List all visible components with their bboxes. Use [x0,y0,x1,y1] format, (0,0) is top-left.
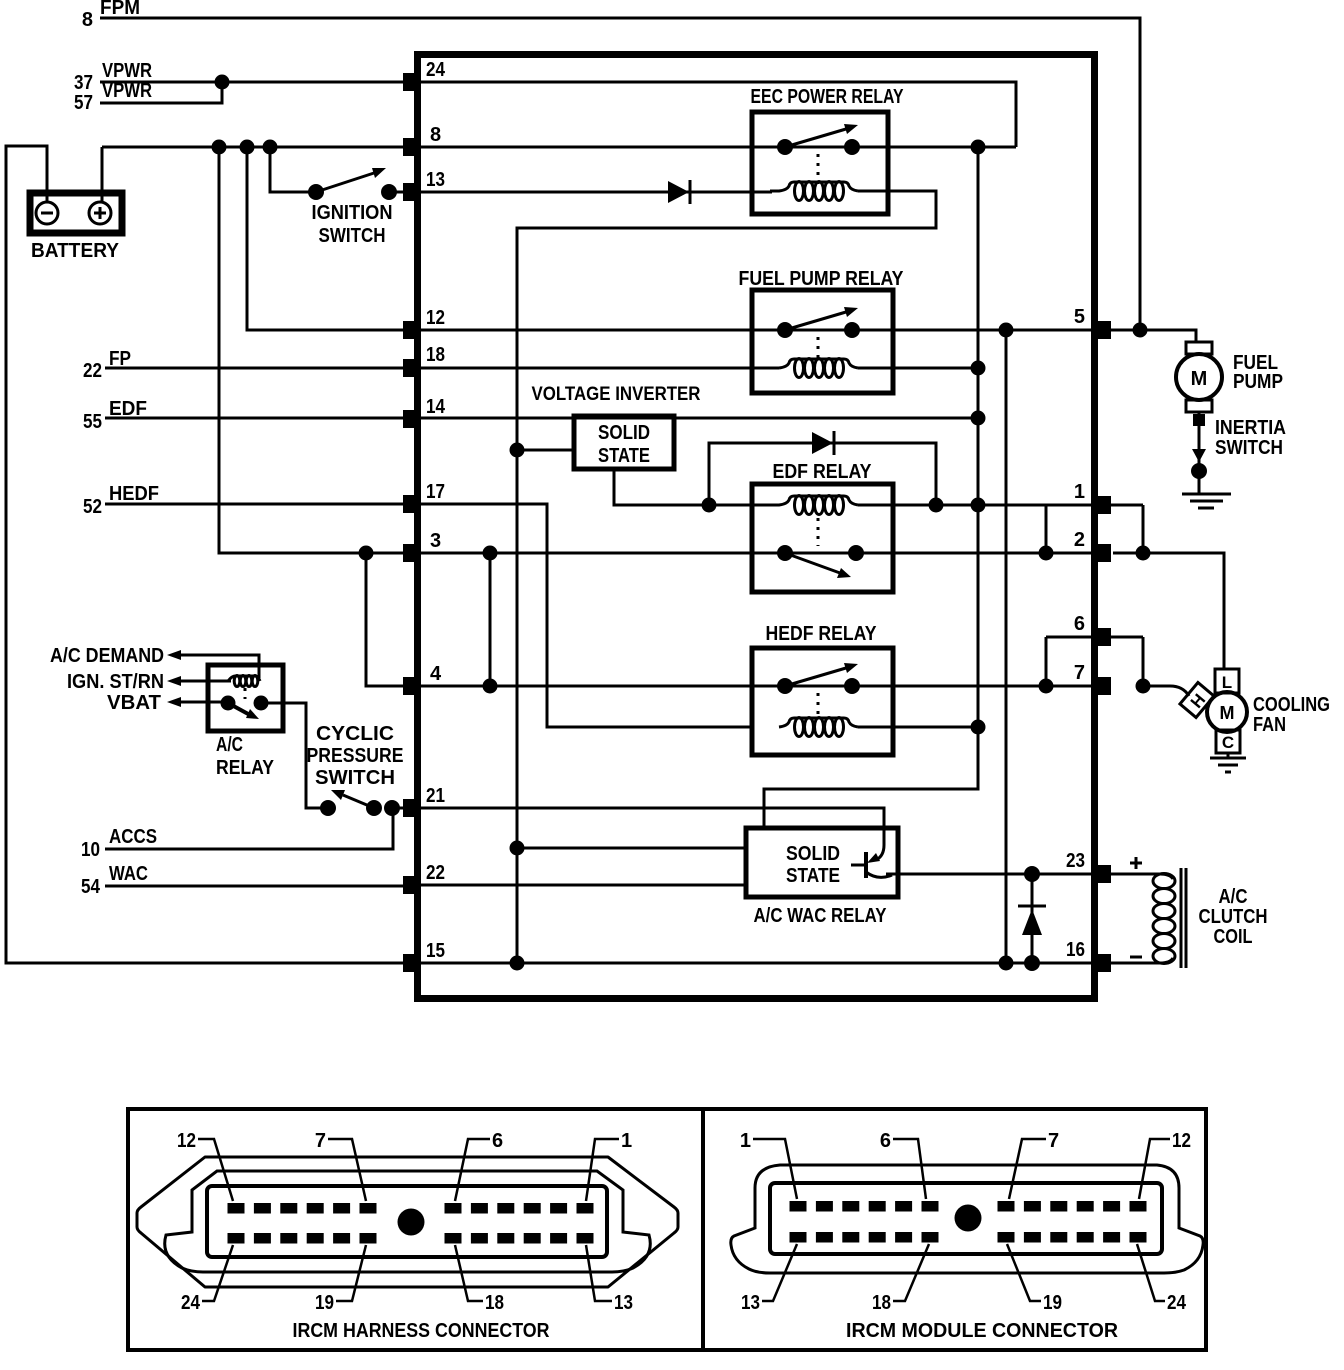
wire pin 17 line to HEDF relay coil [421,504,752,727]
wire pin 4 line to pin 7 through HEDF contacts [421,685,1094,688]
svg-text:13: 13 [614,1292,633,1314]
wire HEDF to pin 17 [105,503,403,506]
wire rail drop to pin 12 [247,147,410,330]
wire solid-state rail into voltage inverter [517,449,574,452]
svg-text:SOLID: SOLID [598,422,650,444]
svg-text:ACCS: ACCS [109,826,157,848]
connector J2 IRCM MODULE CONNECTOR shell [731,1165,1203,1273]
svg-text:1: 1 [621,1130,632,1152]
svg-text:55: 55 [83,411,102,433]
svg-text:C: C [1222,733,1234,752]
svg-text:COOLING: COOLING [1253,694,1330,716]
wire pin 15 to pin 16 line [421,962,1094,965]
node A/C DEMAND label with arrow [50,645,181,667]
connector J1 IRCM HARNESS CONNECTOR shell outer [137,1157,678,1287]
pin 15 [403,954,421,972]
svg-text:18: 18 [485,1292,504,1314]
wire HEDF coil return [858,726,978,729]
junction pin 2 line right leg [1136,546,1151,561]
relay K1 EEC POWER RELAY [751,86,905,214]
connector J2 pin field [770,1183,1162,1254]
wire pin 12 line to pin 5 through fuel pump relay contacts [421,329,1094,332]
svg-text:1: 1 [1074,481,1085,503]
svg-text:COIL: COIL [1214,926,1253,948]
connector J1 index circle [398,1209,425,1236]
wire pin 1 to pin 2 link left leg [1045,505,1048,553]
motor M1 FUEL PUMP [1176,342,1283,412]
svg-text:24: 24 [1167,1292,1187,1314]
wire WAC output to pin 23 [886,873,1094,876]
svg-text:VOLTAGE INVERTER: VOLTAGE INVERTER [532,384,701,405]
svg-text:A/C: A/C [1219,886,1248,908]
wire VPWR 37 to pin 24 [100,81,410,84]
transistor Q1 bar and emitter [851,852,892,878]
pin label 24 J1 [181,1245,233,1314]
svg-text:12: 12 [1172,1130,1191,1152]
svg-text:SWITCH: SWITCH [319,225,386,247]
svg-text:21: 21 [426,785,445,807]
wire pin 13 line to EEC relay coil circuit [421,191,772,194]
junction flyback diode bottom on pin 16 line [1024,955,1040,971]
pin 5 [1091,321,1111,339]
wire pin 3 to pin 4 inner strap [489,553,492,686]
pin 2 [1091,544,1111,562]
connector J1 pin field [207,1186,607,1257]
switch S2 INERTIA SWITCH [1191,414,1286,479]
svg-text:FUEL PUMP RELAY: FUEL PUMP RELAY [739,268,905,290]
junction pin 7 line left leg [1039,679,1054,694]
pin 24 [403,73,421,91]
svg-text:18: 18 [872,1292,891,1314]
wire EDF coil bypass diode branch [709,443,936,505]
wire pin 21 line into WAC transistor [421,808,884,860]
junction solid-state rail at pin 15 line [510,956,525,971]
ground inertia switch [1182,494,1231,508]
pin label 13 J2 [741,1244,797,1314]
wire voltage inverter output to EDF relay coil [614,469,753,505]
pin 12 [403,321,421,339]
svg-text:2: 2 [1074,529,1085,551]
pin 8 [403,138,421,156]
svg-text:22: 22 [426,862,445,884]
wire pin 1 to pin 2 link right leg [1142,505,1145,553]
pin label 18 J1 [455,1245,504,1314]
wire EEC coil return to solid-state rail [517,191,936,963]
svg-text:IGNITION: IGNITION [312,202,393,224]
svg-text:STATE: STATE [786,865,840,887]
diode CR2 on EDF branch [812,431,834,455]
svg-text:SOLID: SOLID [786,843,840,865]
wire A/C DEMAND to A/C relay coil [179,655,259,678]
svg-text:CLUTCH: CLUTCH [1199,906,1268,928]
wire pin 18 line to fuel pump relay coil [421,367,779,370]
wire pin 2 to cooling fan low terminal [1113,553,1224,670]
svg-text:M: M [1220,703,1235,723]
node IGN. ST/RN label with arrow [67,671,181,693]
svg-text:7: 7 [1048,1130,1059,1152]
connector J2 pins top row [790,1201,1147,1212]
svg-text:52: 52 [83,496,102,518]
wire EDF coil to pin 1 [858,504,1143,507]
svg-text:3: 3 [430,530,441,552]
pin label 12 J2 [1139,1130,1191,1199]
wire A/C relay to cyclic pressure switch [261,703,330,808]
svg-text:19: 19 [1043,1292,1062,1314]
svg-text:15: 15 [426,940,445,962]
junction coil rail at EDF coil [971,498,986,513]
relay K6 A/C RELAY [208,665,283,779]
wire VBAT to A/C relay contact [179,701,222,704]
wire ACCS to cyclic switch node [105,808,393,849]
svg-text:SWITCH: SWITCH [1215,437,1283,459]
node EDF pin 55 label [83,398,147,433]
svg-text:PRESSURE: PRESSURE [307,745,404,767]
connector J1 pins top row [228,1203,594,1214]
svg-text:CYCLIC: CYCLIC [316,723,394,745]
junction FPM drop on pin 5 wire [1133,323,1148,338]
svg-text:1: 1 [740,1130,751,1152]
wire coil rail into A/C WAC solid state [764,147,978,828]
svg-text:IRCM HARNESS CONNECTOR: IRCM HARNESS CONNECTOR [293,1320,550,1342]
node ACCS pin 10 label [81,826,157,861]
wire pin 6 to pin 7 link [1046,637,1143,686]
svg-text:10: 10 [81,839,100,861]
wire pin 3 line to pin 2 through EDF contacts [421,552,1094,555]
svg-text:IGN. ST/RN: IGN. ST/RN [67,671,164,693]
svg-text:M: M [1191,368,1208,390]
svg-text:17: 17 [426,481,445,503]
svg-text:RELAY: RELAY [216,757,275,779]
connector J1 pins bottom row [228,1233,594,1244]
node + terminal label [1130,857,1142,869]
pin 22 [403,876,421,894]
svg-text:6: 6 [1074,613,1085,635]
junction pin 7 line right leg [1136,679,1151,694]
svg-text:EEC POWER RELAY: EEC POWER RELAY [751,86,905,108]
svg-text:12: 12 [426,307,445,329]
svg-text:WAC: WAC [109,863,148,885]
junction coil rail at HEDF coil [971,720,986,735]
wire right-side drop pin 5 to pin 16 line [1005,330,1008,963]
wire pin 8 line through EEC relay contacts [421,146,1016,149]
battery BAT1 [30,193,122,262]
pin label 19 J2 [1007,1244,1062,1314]
node VBAT label with arrow [107,692,181,714]
junction right-side drop at pin 16 line [999,956,1014,971]
pin label 6 J1 [455,1130,503,1201]
node WAC pin 54 label [81,863,148,898]
node FP pin 22 label [83,348,131,382]
wire rail drop to ignition switch [270,147,316,192]
pin label 7 J2 [1009,1130,1059,1199]
svg-text:24: 24 [426,59,446,81]
svg-text:A/C WAC RELAY: A/C WAC RELAY [754,905,888,927]
junction coil rail at pin 14 [971,411,986,426]
svg-text:12: 12 [177,1130,196,1152]
svg-text:7: 7 [1074,662,1085,684]
junction coil-return rail on pin 8 line [971,140,986,155]
junction pin 4 inner strap [483,679,498,694]
pin label 1 J2 [740,1130,797,1199]
junction pin 3 line outer [359,546,374,561]
junction EDF diode return [929,498,944,513]
pin label 7 J1 [315,1130,366,1201]
switch S3 CYCLIC PRESSURE SWITCH [307,723,404,816]
pin label 1 J1 [586,1130,632,1201]
connector section divider [701,1109,705,1350]
svg-text:VBAT: VBAT [107,692,161,714]
pin 18 [403,359,421,377]
relay K5 A/C WAC RELAY solid state block [746,828,898,927]
svg-text:INERTIA: INERTIA [1215,417,1286,439]
svg-text:22: 22 [83,360,102,382]
junction coil rail at fuel pump relay [971,361,986,376]
svg-text:19: 19 [315,1292,334,1314]
diode CR1 on pin 13 line [668,180,690,204]
junction VPWR [215,75,230,90]
svg-text:4: 4 [430,663,442,685]
node FPM (pin 8 of EEC) label [82,0,140,31]
wire WAC to pin 22 [105,885,403,888]
diode CR3 A/C clutch flyback [1018,874,1046,963]
pin 3 [403,544,421,562]
svg-text:8: 8 [430,124,441,146]
svg-text:13: 13 [741,1292,760,1314]
node VPWR pin 37 label [74,60,152,94]
wire FPM net: from label right, down right side to pin 5 line [100,18,1140,330]
pin label 19 J1 [315,1245,366,1314]
pin label 12 J1 [177,1130,233,1201]
svg-text:14: 14 [426,396,446,418]
node HEDF pin 52 label [83,483,159,518]
svg-text:IRCM MODULE CONNECTOR: IRCM MODULE CONNECTOR [846,1320,1119,1342]
pin 14 [403,410,421,428]
junction inverter output node [702,498,717,513]
pin 6 [1091,628,1111,646]
svg-text:23: 23 [1066,850,1085,872]
connector J2 index circle [955,1205,982,1232]
svg-text:VPWR: VPWR [102,60,152,82]
svg-text:57: 57 [74,92,93,114]
svg-text:A/C DEMAND: A/C DEMAND [50,645,164,667]
node - terminal label [1130,956,1142,959]
relay K2 FUEL PUMP RELAY [739,268,905,393]
wire pin 14 line [421,417,978,420]
svg-text:PUMP: PUMP [1233,371,1283,393]
pin 21 [403,799,421,817]
pin 13 [403,183,421,201]
svg-text:STATE: STATE [598,445,650,467]
connector J2 pins bottom row [790,1232,1147,1243]
pin 17 [403,495,421,513]
junction pin 5 line [999,323,1014,338]
svg-text:13: 13 [426,169,445,191]
junction solid-state rail at WAC [510,841,525,856]
node VPWR pin 57 label [74,80,152,114]
svg-text:6: 6 [880,1130,891,1152]
junction solid-state rail at inverter [510,443,525,458]
pin 7 [1091,677,1111,695]
junction flyback diode top on pin 23 wire [1024,866,1040,882]
connector J1 shell inner [165,1171,651,1272]
svg-text:A/C: A/C [216,734,243,756]
motor M2 COOLING FAN [1180,669,1330,753]
svg-text:37: 37 [74,72,93,94]
junction pin 2 line left leg [1039,546,1054,561]
wire pin 24 internal feed joining pin 8 line [421,82,1016,147]
wire solid-state rail into WAC block [517,847,746,850]
wire cyclic pressure switch to pin 21 [392,807,403,810]
svg-text:HEDF: HEDF [109,483,159,505]
pin label 24 J2 [1137,1244,1187,1314]
wire battery positive rail to pin 8 [102,147,410,201]
svg-text:FPM: FPM [100,0,140,19]
svg-text:54: 54 [81,876,101,898]
wire rail drop to pin 3 line [219,147,410,553]
relay K4 HEDF RELAY [752,623,893,755]
switch S1 ignition switch [308,168,397,247]
pin label 13 J1 [586,1245,633,1314]
relay K3 EDF RELAY [752,461,893,592]
ground cooling fan [1210,753,1246,772]
wire pin 22 line into WAC block [421,884,746,887]
wire pin 23 to A/C clutch coil [1111,874,1173,879]
inductor L1 A/C CLUTCH COIL [1153,868,1268,968]
svg-text:HEDF RELAY: HEDF RELAY [766,623,878,645]
wire fuel pump relay coil return [858,367,978,370]
svg-text:8: 8 [82,9,93,31]
wire IGN. ST/RN to A/C relay coil [179,680,231,683]
wire ignition switch to pin 13 [389,191,410,194]
svg-text:7: 7 [315,1130,326,1152]
svg-text:24: 24 [181,1292,201,1314]
pin 1 [1091,496,1111,514]
wire fuel pump to inertia switch [1198,412,1201,494]
junction battery rail [212,140,278,155]
svg-text:BATTERY: BATTERY [31,240,120,262]
pin 4 [403,677,421,695]
svg-text:6: 6 [492,1130,503,1152]
svg-text:L: L [1222,673,1232,692]
transistor Q1 arrow into base [867,853,880,863]
svg-text:SWITCH: SWITCH [315,767,395,789]
svg-text:16: 16 [1066,939,1085,961]
wire VPWR 57 joining VPWR 37 [100,82,222,103]
IRCM module boundary box [418,55,1095,999]
wire pin 16 to A/C clutch coil [1111,958,1173,963]
wire EDF to pin 14 [105,417,403,420]
wire FP to pin 18 [105,367,403,370]
svg-text:5: 5 [1074,306,1085,328]
wire pin 3 to pin 4 outer strap [366,553,403,686]
wire pin 7 to cooling fan high terminal [1143,686,1189,696]
pin label 6 J2 [880,1130,926,1199]
connector section outer frame [128,1109,1206,1350]
pin 16 [1091,954,1111,972]
wire battery negative to pin 15 (left ground rail) [6,146,403,963]
svg-text:18: 18 [426,344,445,366]
junction pin 3 line inner [483,546,498,561]
svg-text:EDF RELAY: EDF RELAY [773,461,873,483]
pin 23 [1091,865,1111,883]
svg-text:FAN: FAN [1253,714,1286,736]
op-amp U1 VOLTAGE INVERTER solid state block [532,384,701,469]
wire pin 5 to fuel pump motor [1111,330,1196,342]
pin label 18 J2 [872,1244,929,1314]
